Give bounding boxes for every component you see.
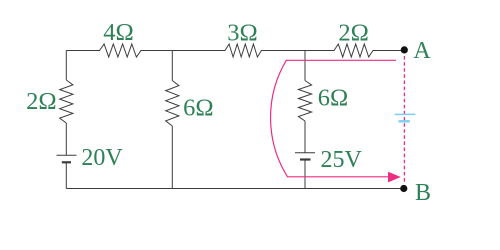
- svg-text:A: A: [413, 38, 431, 64]
- svg-text:20V: 20V: [81, 145, 123, 171]
- svg-text:2Ω: 2Ω: [26, 88, 56, 115]
- svg-text:3Ω: 3Ω: [227, 20, 257, 47]
- svg-text:2Ω: 2Ω: [338, 20, 368, 47]
- svg-text:4Ω: 4Ω: [103, 19, 133, 46]
- svg-text:6Ω: 6Ω: [183, 95, 213, 122]
- svg-text:25V: 25V: [321, 147, 363, 173]
- svg-text:B: B: [415, 180, 431, 206]
- svg-text:6Ω: 6Ω: [318, 85, 348, 112]
